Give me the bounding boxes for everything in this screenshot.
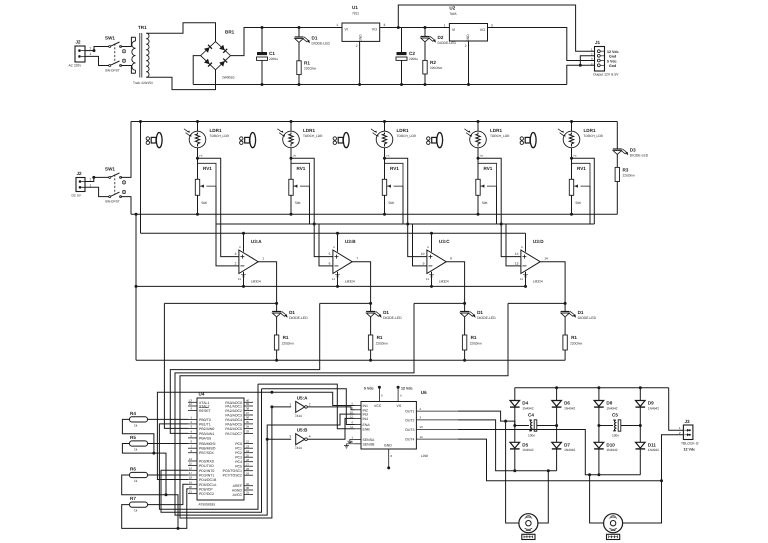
svg-text:U1: U1 [352, 5, 358, 10]
svg-text:220Ohm: 220Ohm [304, 67, 317, 71]
svg-text:PD3/INT1: PD3/INT1 [199, 474, 214, 478]
svg-text:Trafo 220/15V: Trafo 220/15V [133, 81, 154, 85]
svg-text:12: 12 [189, 402, 193, 406]
wire LDR5 tap to ref rail [572, 158, 595, 224]
svg-text:39: 39 [246, 402, 250, 406]
potentiometer RV1 wiper 1 [198, 163, 217, 187]
junction [400, 83, 403, 86]
svg-text:U3:C: U3:C [439, 239, 450, 244]
svg-text:5 Vdc: 5 Vdc [364, 387, 374, 391]
wire [464, 350, 466, 360]
junction [270, 391, 273, 394]
connector J2 (DC 5V) [76, 178, 85, 192]
switch SW1 (SW-DPST) pole 2 [109, 61, 122, 67]
svg-text:D3: D3 [630, 148, 636, 153]
inverter U5:A [296, 401, 308, 412]
svg-text:1: 1 [90, 52, 92, 56]
svg-text:11: 11 [520, 277, 523, 281]
svg-text:PB1/T1: PB1/T1 [199, 422, 211, 426]
wire RV1 wiper 2 to ref rail [309, 186, 311, 224]
junction [261, 83, 264, 86]
wire LDR2 tap to op-amp + input [291, 158, 333, 256]
wire output to ADC route [164, 302, 276, 304]
svg-text:50K: 50K [576, 201, 583, 205]
svg-text:12: 12 [515, 252, 519, 256]
regulator U2 (7805) [449, 24, 487, 42]
wire [571, 195, 573, 214]
svg-text:7414: 7414 [295, 414, 302, 418]
svg-text:D11: D11 [648, 442, 657, 447]
svg-text:33: 33 [246, 430, 250, 434]
ground bus vertical [135, 214, 137, 360]
svg-text:PA3/ADC3: PA3/ADC3 [225, 414, 242, 418]
svg-text:16: 16 [189, 467, 193, 471]
svg-text:1: 1 [262, 257, 264, 261]
svg-text:11: 11 [426, 277, 429, 281]
svg-text:D7: D7 [564, 442, 570, 447]
svg-text:1k: 1k [134, 509, 138, 513]
torch icon 3 [333, 133, 349, 148]
wire [477, 122, 479, 132]
wire [146, 70, 215, 90]
svg-text:U3:B: U3:B [345, 239, 356, 244]
svg-text:SW1: SW1 [105, 36, 115, 41]
wire [639, 388, 641, 401]
wire op-amp V+ pin [337, 233, 339, 252]
svg-text:2: 2 [465, 44, 467, 48]
wire LDR1 tap to U3:A + [198, 158, 239, 256]
svg-text:1k: 1k [134, 423, 138, 427]
svg-text:AC 220V: AC 220V [69, 64, 83, 68]
wire motor2 left terminal [590, 475, 604, 523]
wire R5 to PB5 [148, 443, 189, 445]
svg-text:TORCH_LDR: TORCH_LDR [210, 134, 230, 138]
junction [139, 120, 142, 123]
svg-text:VS: VS [397, 404, 402, 408]
wire [121, 37, 136, 46]
potentiometer RV1 body 2 [289, 179, 293, 195]
svg-text:OUT4: OUT4 [405, 438, 414, 442]
svg-text:D8: D8 [606, 401, 612, 406]
wire U3:B out to PB3/AIN1 [170, 303, 319, 433]
svg-text:J2: J2 [76, 40, 82, 45]
wire [290, 195, 292, 214]
inverter U5:B [296, 434, 308, 445]
junction [477, 120, 480, 123]
wire LDR4 tap to op-amp + input [478, 158, 521, 256]
svg-text:220Ohm: 220Ohm [430, 66, 443, 70]
wire [556, 449, 558, 471]
wire [85, 47, 109, 51]
svg-text:PC6/TOSC1: PC6/TOSC1 [223, 469, 242, 473]
svg-text:12 Vdc: 12 Vdc [401, 387, 413, 391]
junction [579, 64, 582, 67]
U4 right pin stubs [244, 402, 253, 494]
U6 VCC 5V flag [378, 386, 381, 402]
svg-text:20: 20 [189, 485, 193, 489]
bridge rectifier BR1 [201, 42, 231, 70]
svg-text:2: 2 [90, 178, 92, 182]
wire [598, 426, 600, 443]
wire R4 loop [122, 419, 153, 453]
wire PB1 to ENB rail [159, 384, 258, 509]
svg-text:1N4942: 1N4942 [522, 406, 533, 410]
svg-text:5: 5 [329, 252, 331, 256]
resistor R2 [423, 60, 427, 74]
junction [196, 157, 199, 160]
svg-text:AT90S8535: AT90S8535 [199, 503, 216, 507]
junction [93, 49, 96, 52]
junction [369, 302, 372, 305]
svg-text:C4: C4 [528, 413, 534, 418]
junction [242, 285, 245, 288]
capacitor C5 [599, 420, 640, 431]
switch SW1 contact marker 1 [122, 50, 125, 53]
wire [598, 449, 600, 475]
potentiometer RV1 wiper 5 [572, 163, 591, 187]
wire OUT3 to diode bottoms [458, 430, 641, 475]
svg-text:1: 1 [90, 183, 92, 187]
wire motor1 left terminal [506, 421, 519, 523]
junction [570, 157, 573, 160]
svg-text:PD5/OC1A: PD5/OC1A [199, 483, 217, 487]
svg-text:1N4942: 1N4942 [606, 448, 617, 452]
junction [463, 302, 466, 305]
svg-text:4: 4 [309, 435, 311, 439]
svg-text:34: 34 [246, 425, 250, 429]
svg-text:TORCH_LDR: TORCH_LDR [490, 134, 510, 138]
wire [121, 66, 136, 74]
junction [564, 302, 567, 305]
svg-text:50K: 50K [295, 201, 302, 205]
svg-text:DIODE-LED: DIODE-LED [578, 316, 597, 320]
junction [152, 452, 155, 455]
wire SW1 to 5V rail [121, 122, 131, 178]
wire 5V to J1 pin3 [488, 28, 595, 61]
wire [401, 28, 403, 53]
led D2 [421, 36, 436, 42]
ground rail [193, 84, 567, 86]
svg-text:14: 14 [420, 435, 424, 439]
svg-text:D1: D1 [383, 310, 389, 315]
svg-text:RV1: RV1 [297, 166, 306, 171]
wire gnd to J1 pin4 [567, 65, 595, 84]
switch SW1 link (dashed) [114, 44, 116, 64]
svg-text:AGND: AGND [232, 489, 243, 493]
svg-text:R5: R5 [130, 435, 136, 440]
op-amp U3:B [333, 250, 352, 274]
svg-text:3: 3 [235, 252, 237, 256]
svg-text:2: 2 [356, 44, 358, 48]
svg-text:DIODE-LED: DIODE-LED [383, 316, 402, 320]
svg-text:29: 29 [246, 471, 250, 475]
wire [290, 148, 292, 180]
wire [424, 42, 426, 60]
wire op-amp V+ pin [431, 233, 433, 252]
resistor R1 (B) [368, 335, 372, 350]
wire OUT4 [458, 439, 662, 481]
junction [555, 386, 558, 389]
wire [598, 388, 600, 401]
torch icon 5 [520, 133, 536, 148]
connector J3 [683, 425, 693, 440]
switch SW1 (SW-DPST) pole 1 [109, 42, 122, 48]
connector J2 (AC 220V) [75, 46, 85, 62]
svg-text:VO: VO [372, 28, 377, 32]
svg-text:PA1/ADC1: PA1/ADC1 [225, 405, 242, 409]
svg-text:D4: D4 [522, 401, 528, 406]
svg-text:13: 13 [515, 261, 519, 265]
wire R4 to PB0 [148, 418, 189, 420]
wire RV1 wiper 3 to ref rail [402, 186, 404, 224]
junction [336, 285, 339, 288]
5V rail (LDR section) [131, 121, 617, 123]
svg-text:VI: VI [452, 28, 455, 32]
wire [639, 449, 641, 475]
LDR3 (TORCH_LDR) [371, 129, 393, 148]
junction [555, 424, 558, 427]
svg-text:PD6/ICP: PD6/ICP [199, 487, 213, 491]
svg-text:14: 14 [544, 257, 548, 261]
potentiometer RV1 wiper 4 [478, 163, 497, 187]
wire [370, 317, 372, 335]
wire [616, 182, 618, 215]
LDR5 (TORCH_LDR) [558, 129, 580, 148]
capacitor C4 [515, 420, 557, 431]
ground at SENSA [347, 439, 354, 443]
wire LDR3 tap to op-amp + input [385, 158, 427, 256]
wire to U6 IN3 [267, 414, 354, 439]
wire output to ADC route [414, 302, 465, 304]
svg-text:VCC: VCC [374, 404, 382, 408]
svg-text:VO: VO [480, 28, 485, 32]
svg-text:PA7/ADC7: PA7/ADC7 [225, 432, 242, 436]
svg-text:U6: U6 [421, 390, 427, 395]
wire OUT1 to D4 node [458, 411, 515, 425]
resistor R3 [615, 167, 619, 181]
wire op-amp output [352, 262, 370, 304]
svg-text:R1: R1 [377, 335, 383, 340]
svg-text:18: 18 [189, 476, 193, 480]
svg-text:RV1: RV1 [484, 166, 493, 171]
op-amp U3:D [521, 250, 540, 274]
ground rail (LDR section) [131, 213, 617, 215]
transformer TR1 [132, 33, 149, 78]
wire [564, 350, 566, 360]
microcontroller U4 (AT90S8535) [197, 398, 244, 500]
svg-text:PC2: PC2 [235, 451, 242, 455]
junction [547, 469, 550, 472]
svg-text:VI: VI [345, 28, 348, 32]
svg-text:12 Vdc: 12 Vdc [607, 50, 619, 54]
junction [477, 213, 480, 216]
svg-text:100n: 100n [612, 434, 619, 438]
svg-text:PC7/TOSC2: PC7/TOSC2 [223, 474, 242, 478]
wire op-amp V- pin [431, 272, 433, 287]
torch icon 2 [240, 133, 256, 148]
svg-text:U5:B: U5:B [297, 428, 308, 433]
wire [298, 43, 300, 61]
svg-text:28: 28 [246, 467, 250, 471]
junction [358, 83, 361, 86]
svg-text:50K: 50K [202, 201, 209, 205]
led D1 (A) [272, 311, 287, 317]
svg-text:J3: J3 [685, 419, 691, 424]
wire output to ADC route [320, 302, 371, 304]
svg-text:GND: GND [359, 34, 363, 42]
wire J3 pin2 down [662, 435, 684, 481]
op-amp V+ rail [141, 232, 526, 234]
svg-text:1N4942: 1N4942 [648, 448, 659, 452]
led D1 (D) [561, 311, 576, 317]
potentiometer RV1 wiper 2 [291, 163, 310, 187]
wire 12V to J1 pin1 [398, 5, 594, 51]
wire [514, 449, 516, 471]
junction [336, 232, 339, 235]
svg-text:25: 25 [246, 453, 250, 457]
resistor R6 [130, 472, 148, 477]
wire bridge+ to 12V rail [231, 28, 343, 56]
svg-text:C5: C5 [612, 413, 618, 418]
U6 left pin stubs [355, 406, 362, 444]
junction [177, 527, 180, 530]
svg-text:7: 7 [356, 257, 358, 261]
svg-text:100n: 100n [528, 434, 535, 438]
svg-text:36: 36 [246, 416, 250, 420]
wire [556, 426, 558, 443]
wire 12V rail to J3 pin1 [669, 388, 684, 431]
junction [570, 120, 573, 123]
wire to U6 ENA [262, 389, 355, 425]
wire op-amp V+ pin [525, 233, 527, 252]
svg-text:DIODE-LED: DIODE-LED [630, 154, 649, 158]
wire R5 loop [122, 444, 166, 495]
junction [383, 120, 386, 123]
svg-text:TR1: TR1 [138, 25, 147, 30]
wire RV1 wiper to ref rail / U3:A - [216, 186, 239, 266]
wire ref rail to op-amp 4 - input [506, 224, 521, 266]
wire [616, 122, 618, 149]
svg-text:SW1: SW1 [105, 167, 115, 172]
junction [597, 473, 600, 476]
wire [477, 195, 479, 214]
wire bridge- to ground rail [193, 56, 200, 85]
junction [588, 473, 591, 476]
svg-text:R1: R1 [304, 61, 310, 66]
diode D4 [510, 401, 520, 408]
svg-text:DC 5V: DC 5V [72, 194, 82, 198]
junction [275, 359, 278, 362]
svg-text:220Ohm: 220Ohm [282, 342, 295, 346]
svg-text:J2: J2 [77, 171, 83, 176]
led D1 (C) [460, 311, 475, 317]
junction [270, 405, 273, 408]
svg-text:PD1/TXD: PD1/TXD [199, 464, 214, 468]
svg-text:U3:D: U3:D [533, 239, 544, 244]
wire [85, 187, 109, 196]
svg-text:15: 15 [350, 440, 354, 444]
svg-text:1N4942: 1N4942 [648, 406, 659, 410]
junction [369, 359, 372, 362]
svg-text:AVCC: AVCC [233, 493, 243, 497]
U6 GND pin [388, 449, 390, 468]
svg-text:2W005G: 2W005G [222, 76, 235, 80]
junction [513, 424, 516, 427]
svg-text:1: 1 [289, 402, 291, 406]
svg-text:SW-DPST: SW-DPST [105, 200, 120, 204]
svg-text:D1: D1 [477, 310, 483, 315]
switch contact marker [122, 190, 125, 193]
U4 left pin stubs [188, 402, 197, 493]
wire [401, 60, 403, 84]
wire RV1 wiper 5 drop [589, 186, 591, 224]
svg-text:2: 2 [235, 261, 237, 265]
svg-text:11: 11 [238, 277, 241, 281]
svg-text:DIODE-LED: DIODE-LED [438, 41, 457, 45]
svg-text:PA5/ADC5: PA5/ADC5 [225, 422, 242, 426]
svg-text:9: 9 [423, 261, 425, 265]
svg-text:30: 30 [246, 486, 250, 490]
junction [513, 469, 516, 472]
svg-text:TBLOCK-I2: TBLOCK-I2 [681, 442, 699, 446]
wire [290, 122, 292, 132]
junction [597, 386, 600, 389]
svg-text:50K: 50K [482, 201, 489, 205]
junction [424, 83, 427, 86]
wire OUT2 to diode bottoms [458, 420, 557, 471]
svg-text:U3:A: U3:A [251, 239, 262, 244]
svg-text:RV1: RV1 [390, 166, 399, 171]
svg-text:PA2/ADC2: PA2/ADC2 [225, 409, 242, 413]
junction [463, 359, 466, 362]
wire [261, 60, 263, 84]
wire [261, 28, 263, 53]
potentiometer RV1 body 3 [382, 179, 386, 195]
wire U5:B input [267, 438, 291, 440]
diode D10 [594, 442, 604, 449]
op-amp gnd mark [523, 275, 528, 278]
svg-text:PB4/SS: PB4/SS [199, 436, 212, 440]
svg-text:220Ohm: 220Ohm [470, 342, 483, 346]
junction [135, 213, 138, 216]
junction [397, 26, 400, 29]
wire U5:B out to U6 IN4 [307, 418, 355, 439]
svg-text:5 Vdc: 5 Vdc [607, 59, 617, 63]
svg-text:2200u: 2200u [409, 57, 418, 61]
svg-text:PD7/OC2: PD7/OC2 [199, 492, 214, 496]
svg-text:GND: GND [384, 444, 392, 448]
junction [500, 223, 503, 226]
motor M1 [519, 514, 538, 540]
regulator U1 (7812) [342, 23, 380, 41]
svg-text:PC4: PC4 [235, 460, 242, 464]
wire [197, 148, 199, 180]
svg-text:220Ohm: 220Ohm [570, 342, 583, 346]
svg-text:D6: D6 [564, 401, 570, 406]
junction [387, 466, 390, 469]
5V drop to op-amp V+ rail [140, 122, 142, 234]
junction [298, 83, 301, 86]
wire ref rail to op-amp 2 - input [319, 224, 333, 266]
svg-text:L298: L298 [421, 454, 428, 458]
svg-text:PC0: PC0 [235, 442, 242, 446]
wire [424, 74, 426, 85]
svg-text:TORCH_LDR: TORCH_LDR [303, 134, 323, 138]
svg-text:OUT2: OUT2 [405, 418, 414, 422]
svg-text:2200u: 2200u [269, 57, 278, 61]
svg-text:SENSB: SENSB [363, 442, 376, 446]
wire [564, 303, 566, 311]
